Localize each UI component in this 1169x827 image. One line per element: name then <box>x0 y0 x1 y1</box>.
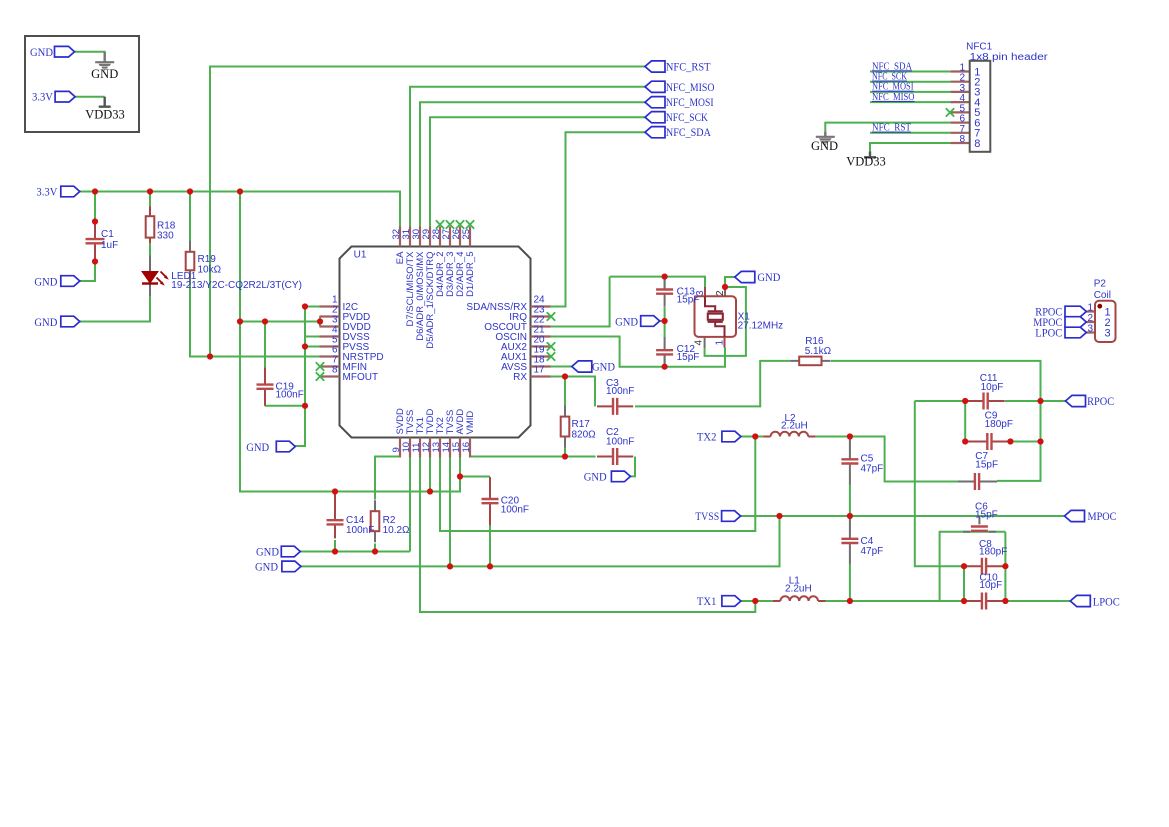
svg-text:GND: GND <box>757 270 780 284</box>
svg-text:17: 17 <box>534 365 546 376</box>
svg-text:GND: GND <box>30 45 53 59</box>
svg-text:VMID: VMID <box>465 411 476 435</box>
svg-text:15pF: 15pF <box>677 352 700 363</box>
svg-text:180pF: 180pF <box>979 547 1007 558</box>
svg-text:2.2uH: 2.2uH <box>781 421 808 432</box>
svg-text:3: 3 <box>695 290 706 296</box>
svg-text:25: 25 <box>461 229 472 240</box>
svg-text:10.2Ω: 10.2Ω <box>383 525 410 536</box>
svg-text:P2: P2 <box>1094 279 1107 290</box>
svg-text:NFC_SDA: NFC_SDA <box>666 125 711 139</box>
svg-text:D1/ADR_5: D1/ADR_5 <box>465 252 476 297</box>
svg-text:10pF: 10pF <box>981 382 1004 393</box>
svg-text:GND: GND <box>255 559 278 573</box>
svg-text:8: 8 <box>959 134 965 145</box>
svg-text:GND: GND <box>34 315 57 329</box>
svg-text:1: 1 <box>1087 303 1093 314</box>
svg-text:TX1: TX1 <box>697 594 717 608</box>
svg-text:LPOC: LPOC <box>1093 594 1120 608</box>
svg-text:5.1kΩ: 5.1kΩ <box>805 346 832 357</box>
svg-text:10pF: 10pF <box>979 580 1002 591</box>
svg-text:NFC_MOSI: NFC_MOSI <box>666 95 714 109</box>
svg-text:180pF: 180pF <box>985 419 1013 430</box>
svg-text:8: 8 <box>332 365 338 376</box>
svg-text:27.12MHz: 27.12MHz <box>738 321 784 332</box>
svg-text:NFC_RST: NFC_RST <box>872 123 912 134</box>
svg-text:Coil: Coil <box>1094 290 1111 301</box>
svg-text:16: 16 <box>461 442 472 453</box>
svg-text:RX: RX <box>513 372 527 383</box>
svg-text:3.3V: 3.3V <box>32 90 53 104</box>
svg-text:3: 3 <box>1087 324 1093 335</box>
svg-text:8: 8 <box>974 138 980 150</box>
svg-text:MPOC: MPOC <box>1088 509 1117 523</box>
svg-text:NFC_MISO: NFC_MISO <box>872 92 915 103</box>
svg-text:15pF: 15pF <box>975 510 998 521</box>
svg-text:NFC_RST: NFC_RST <box>666 59 711 73</box>
svg-text:15pF: 15pF <box>975 460 998 471</box>
svg-text:2: 2 <box>1087 313 1093 324</box>
svg-text:100nF: 100nF <box>276 389 304 400</box>
svg-text:LPOC: LPOC <box>1035 326 1062 340</box>
svg-text:10kΩ: 10kΩ <box>198 264 222 275</box>
svg-text:TVSS: TVSS <box>695 509 719 523</box>
svg-text:1uF: 1uF <box>101 240 118 251</box>
svg-text:GND: GND <box>615 314 638 328</box>
svg-text:R17: R17 <box>572 419 591 430</box>
svg-text:100nF: 100nF <box>606 386 634 397</box>
svg-text:3.3V: 3.3V <box>36 185 57 199</box>
svg-text:3: 3 <box>1105 328 1111 340</box>
svg-text:4: 4 <box>694 340 705 346</box>
svg-text:RPOC: RPOC <box>1087 394 1114 408</box>
svg-text:GND: GND <box>584 470 607 484</box>
svg-text:GND: GND <box>246 440 269 454</box>
svg-text:VDD33: VDD33 <box>85 108 125 122</box>
svg-text:1x8 pin header: 1x8 pin header <box>970 52 1049 63</box>
svg-text:TX2: TX2 <box>697 430 717 444</box>
svg-text:1: 1 <box>715 340 726 346</box>
svg-text:U1: U1 <box>354 250 367 261</box>
svg-text:GND: GND <box>91 67 118 81</box>
svg-text:47pF: 47pF <box>861 464 884 475</box>
svg-text:GND: GND <box>34 274 57 288</box>
svg-text:C1: C1 <box>101 229 114 240</box>
svg-text:100nF: 100nF <box>606 437 634 448</box>
svg-text:GND: GND <box>592 360 615 374</box>
svg-text:2: 2 <box>715 290 726 296</box>
svg-text:100nF: 100nF <box>501 505 529 516</box>
svg-text:MFOUT: MFOUT <box>343 372 379 383</box>
svg-text:330: 330 <box>157 231 174 242</box>
svg-text:2.2uH: 2.2uH <box>785 583 812 594</box>
svg-text:VDD33: VDD33 <box>846 155 886 169</box>
svg-text:19-213/Y2C-CQ2R2L/3T(CY): 19-213/Y2C-CQ2R2L/3T(CY) <box>171 280 302 291</box>
svg-text:NFC_SCK: NFC_SCK <box>666 110 708 124</box>
svg-text:47pF: 47pF <box>861 546 884 557</box>
svg-text:100nF: 100nF <box>346 525 374 536</box>
svg-text:820Ω: 820Ω <box>572 430 597 441</box>
svg-text:NFC_MISO: NFC_MISO <box>666 80 715 94</box>
svg-text:GND: GND <box>256 545 279 559</box>
svg-text:GND: GND <box>811 139 838 153</box>
